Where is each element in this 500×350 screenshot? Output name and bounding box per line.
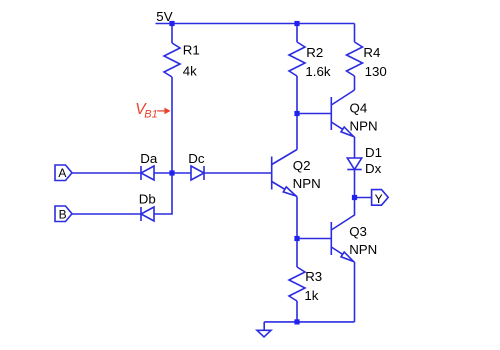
diode Da <box>141 166 154 180</box>
svg-text:1k: 1k <box>304 288 318 303</box>
junction Q3 base node <box>294 236 299 241</box>
wire input B to Db <box>72 213 141 215</box>
pin Y <box>372 190 389 206</box>
svg-text:130: 130 <box>365 64 387 79</box>
svg-text:5V: 5V <box>156 9 172 24</box>
pin A <box>55 165 72 181</box>
svg-text:Dc: Dc <box>188 151 205 166</box>
resistor R4 <box>347 42 363 76</box>
junction node Y <box>352 195 357 200</box>
wire node A column down to B row <box>154 173 172 214</box>
svg-text:Dx: Dx <box>365 161 382 176</box>
svg-text:B1: B1 <box>144 109 157 121</box>
svg-text:Db: Db <box>139 191 156 206</box>
svg-text:R2: R2 <box>306 45 323 60</box>
pin B <box>55 206 72 222</box>
svg-text:1.6k: 1.6k <box>305 64 330 79</box>
node VB1 label <box>135 101 170 121</box>
wire R4 top lead from rail <box>354 24 356 43</box>
resistor R2 <box>289 42 305 76</box>
diode D1 <box>347 158 361 170</box>
svg-text:Da: Da <box>140 151 158 166</box>
diode Dc <box>191 166 204 180</box>
wire Q3 emitter down to bottom rail <box>354 262 356 322</box>
wire Q4 emitter to D1 <box>354 137 356 158</box>
wire R2 bottom lead <box>296 76 298 114</box>
wire R1 bottom lead to node VB1 <box>171 77 173 173</box>
junction at 5V R2 <box>294 21 299 26</box>
wire Q4 base <box>297 113 331 115</box>
svg-text:A: A <box>58 166 66 180</box>
svg-text:R1: R1 <box>183 43 200 58</box>
wire input A to Da <box>72 172 141 174</box>
junction bottom rail R3 <box>294 319 299 324</box>
wire node Y to pin Y <box>355 197 372 199</box>
wire R3 bottom lead <box>296 301 298 322</box>
svg-text:D1: D1 <box>365 145 382 160</box>
wire R3 top lead <box>296 239 298 268</box>
wire node Y down to Q3 collector <box>331 198 354 231</box>
wire D1 to node Y <box>354 170 356 198</box>
svg-text:NPN: NPN <box>350 119 378 134</box>
junction at R2 Q4 base <box>294 111 299 116</box>
resistor R1 <box>164 43 180 77</box>
wire Da to node to Dc <box>154 172 191 174</box>
wire bottom rail <box>264 321 354 323</box>
transistor Q2 <box>272 150 297 197</box>
wire 5V top rail <box>156 23 355 25</box>
svg-text:Q2: Q2 <box>293 158 311 173</box>
svg-text:B: B <box>59 207 67 221</box>
diode Db <box>141 207 154 221</box>
wire Dc to Q2 base <box>204 172 272 174</box>
svg-text:NPN: NPN <box>293 176 321 191</box>
junction at 5V R1 <box>169 21 174 26</box>
wire R1 top lead <box>171 24 173 44</box>
svg-text:Y: Y <box>375 192 383 206</box>
svg-text:R4: R4 <box>363 45 380 60</box>
wire Q3 base <box>297 238 331 240</box>
wire Q2 collector up to R2 <box>296 114 298 150</box>
transistor Q4 <box>331 90 354 137</box>
junction node A diodes <box>169 170 174 175</box>
svg-text:Q4: Q4 <box>350 100 368 115</box>
wire Q2 emitter down to Q3 base node <box>296 197 298 239</box>
svg-text:NPN: NPN <box>349 242 377 257</box>
wire R4 bottom lead to Q4 collector <box>354 76 356 90</box>
svg-text:Q3: Q3 <box>349 224 367 239</box>
transistor Q3 <box>331 222 354 262</box>
svg-text:R3: R3 <box>305 269 322 284</box>
resistor R3 <box>289 267 305 301</box>
svg-text:4k: 4k <box>183 64 197 79</box>
ground <box>257 322 271 337</box>
wire R2 top lead <box>296 24 298 43</box>
